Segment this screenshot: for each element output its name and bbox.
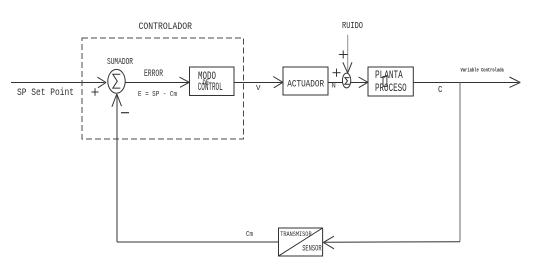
svg-text:SENSOR: SENSOR	[302, 243, 321, 253]
svg-text:CONTROL: CONTROL	[198, 82, 223, 94]
svg-text:ACTUADOR: ACTUADOR	[287, 80, 324, 91]
svg-text:SUMADOR: SUMADOR	[107, 57, 133, 67]
block ACTUADOR	[283, 67, 328, 95]
svg-text:V: V	[256, 85, 261, 93]
wire: ruido vertical into summer 2	[343, 35, 352, 73]
svg-text:SP Set Point: SP Set Point	[17, 87, 74, 99]
minus sign at summer 1 feedback input	[121, 112, 129, 114]
block TRANSMISOR / SENSOR	[279, 228, 323, 256]
plus sign beside ruido line	[339, 51, 348, 59]
svg-text:Variable Controlada: Variable Controlada	[461, 67, 505, 74]
wire: setpoint input line	[11, 77, 106, 88]
svg-text:PLANTA: PLANTA	[375, 70, 403, 82]
plus sign at summer 1 input	[91, 88, 98, 96]
block MODO DE CONTROL	[190, 67, 235, 96]
svg-text:TRANSMISOR: TRANSMISOR	[280, 231, 311, 238]
wire: feedback bottom right into sensor	[323, 236, 460, 249]
wire: error signal to control block	[125, 77, 189, 87]
svg-text:RUIDO: RUIDO	[342, 21, 363, 31]
wire: feedback vertical left into summer 1	[112, 94, 122, 242]
summing junction SUMADOR	[108, 69, 125, 93]
wire: actuator to summer 2	[328, 82, 343, 84]
plus sign on main line before summer 2	[333, 69, 341, 77]
wire: feedback bottom left	[117, 241, 279, 243]
summing junction 2	[342, 73, 350, 88]
svg-text:C: C	[438, 85, 443, 95]
wire: summer 2 to planta	[351, 77, 368, 88]
block PLANTA O PROCESO	[368, 67, 413, 96]
svg-text:E = SP - Cm: E = SP - Cm	[138, 91, 177, 99]
controller dashed box	[82, 38, 244, 139]
wire: output C with end arrow	[413, 77, 520, 87]
svg-text:N: N	[332, 82, 336, 89]
svg-text:Cm: Cm	[246, 231, 253, 239]
wire: feedback vertical right	[459, 83, 461, 242]
wire: V to actuator	[234, 77, 283, 88]
svg-text:ERROR: ERROR	[144, 69, 163, 80]
svg-text:CONTROLADOR: CONTROLADOR	[139, 21, 193, 33]
svg-text:PROCESO: PROCESO	[375, 83, 407, 95]
